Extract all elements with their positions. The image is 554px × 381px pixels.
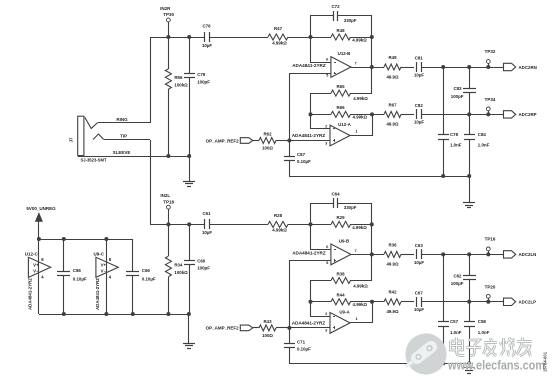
svg-text:C66: C66 — [142, 268, 151, 273]
svg-text:SLEEVE: SLEEVE — [113, 150, 131, 155]
capacitor C62 — [451, 273, 476, 286]
svg-text:R48: R48 — [336, 28, 345, 33]
node — [467, 252, 471, 256]
svg-text:4.99kΩ: 4.99kΩ — [353, 302, 368, 307]
test point TP32 — [485, 49, 496, 67]
svg-text:C72: C72 — [331, 4, 340, 9]
node IN2R — [160, 6, 174, 17]
svg-text:49.9Ω: 49.9Ω — [386, 74, 399, 79]
wire — [401, 254, 414, 256]
capacitor C64 — [331, 191, 356, 210]
svg-text:ADA4841-2YRZ: ADA4841-2YRZ — [292, 250, 326, 255]
wire — [310, 280, 312, 316]
svg-text:TP34: TP34 — [485, 97, 496, 102]
svg-text:100pF: 100pF — [197, 79, 210, 84]
svg-text:15784-001: 15784-001 — [543, 351, 548, 372]
svg-text:100pF: 100pF — [451, 281, 464, 286]
node IN2L — [160, 193, 174, 204]
test point TP20 — [485, 284, 496, 302]
node — [370, 112, 374, 116]
svg-text:C57: C57 — [450, 319, 459, 324]
svg-text:10µF: 10µF — [414, 307, 424, 312]
wire — [289, 140, 291, 156]
port ADC2RN — [504, 63, 537, 70]
wire — [38, 239, 40, 314]
node 5V00_UNREG — [26, 206, 56, 239]
wire — [150, 224, 205, 226]
wire — [443, 139, 445, 176]
svg-text:1.0nF: 1.0nF — [450, 143, 462, 148]
op-amp U12-B — [292, 51, 357, 77]
test point TP16 — [485, 236, 496, 254]
wire — [372, 114, 374, 136]
node — [309, 300, 313, 304]
ground — [183, 156, 195, 187]
capacitor C66 — [126, 268, 156, 282]
wire — [168, 37, 170, 156]
svg-text:TP16: TP16 — [485, 236, 496, 241]
node — [309, 222, 313, 226]
wire — [310, 62, 331, 64]
resistor R44 — [331, 293, 368, 307]
node — [370, 300, 374, 304]
wire — [289, 160, 291, 176]
pin 5 — [326, 73, 329, 78]
wire — [189, 224, 191, 314]
svg-text:49.9Ω: 49.9Ω — [386, 122, 399, 127]
resistor R42 — [384, 290, 401, 314]
capacitor C58 — [464, 319, 490, 335]
wire — [421, 114, 504, 116]
wire — [401, 301, 414, 303]
node — [486, 65, 490, 69]
wire — [350, 135, 372, 137]
svg-text:R65: R65 — [336, 84, 345, 89]
node — [467, 65, 471, 69]
wire — [63, 239, 65, 314]
wire — [469, 326, 471, 363]
wire — [443, 254, 445, 322]
svg-text:R29: R29 — [336, 215, 345, 220]
wire — [443, 326, 445, 363]
capacitor C60 — [184, 259, 210, 271]
node — [467, 300, 471, 304]
wire TIP contact — [93, 134, 127, 140]
svg-text:ADC2RP: ADC2RP — [519, 112, 537, 117]
node — [309, 35, 313, 39]
wire — [39, 314, 189, 316]
node — [441, 252, 445, 256]
svg-text:R34: R34 — [174, 263, 183, 268]
svg-text:C60: C60 — [197, 259, 206, 264]
wire — [288, 224, 310, 226]
node — [131, 312, 135, 316]
wire — [310, 93, 312, 129]
svg-text:1.0nF: 1.0nF — [478, 143, 490, 148]
svg-text:R36: R36 — [388, 242, 397, 247]
resistor R67 — [384, 102, 401, 126]
wire — [276, 327, 289, 329]
wire — [469, 280, 471, 302]
pin 2 — [325, 311, 328, 316]
figure number — [543, 351, 548, 372]
svg-text:1.0nF: 1.0nF — [478, 330, 490, 335]
svg-text:C64: C64 — [331, 191, 340, 196]
resistor R47 — [268, 26, 288, 46]
svg-text:R62: R62 — [263, 132, 272, 137]
svg-text:C67: C67 — [415, 290, 424, 295]
svg-text:ADA4841-2YRZ: ADA4841-2YRZ — [95, 278, 100, 310]
pin 6 — [326, 244, 329, 249]
watermark url — [447, 358, 545, 373]
pin 6 — [326, 57, 329, 62]
resistor R66 — [331, 105, 368, 119]
op-amp U9-B — [292, 238, 357, 264]
wire — [210, 37, 268, 39]
op-amp U12-C — [25, 252, 51, 310]
wire — [253, 327, 259, 329]
wire — [289, 260, 331, 262]
svg-text:U12-B: U12-B — [338, 51, 351, 56]
wire — [253, 140, 259, 142]
wire — [421, 301, 504, 303]
wire SLEEVE — [78, 150, 189, 157]
svg-text:0.10µF: 0.10µF — [142, 276, 156, 281]
resistor R65 — [331, 84, 368, 101]
op-amp U9-C — [94, 252, 119, 310]
wire — [351, 254, 384, 256]
svg-text:330pF: 330pF — [344, 18, 357, 23]
svg-text:4.99kΩ: 4.99kΩ — [353, 283, 368, 288]
svg-text:4.99kΩ: 4.99kΩ — [272, 40, 287, 45]
wire — [310, 128, 330, 130]
wire — [421, 254, 504, 256]
wire — [289, 73, 331, 75]
svg-text:ADA4841-2YRZ: ADA4841-2YRZ — [292, 63, 326, 68]
svg-text:RING: RING — [116, 117, 128, 122]
wire — [289, 140, 330, 142]
capacitor C71 — [284, 340, 311, 352]
wire — [371, 16, 373, 93]
pin 3 — [325, 140, 328, 145]
node — [441, 361, 471, 365]
pin 5 — [326, 260, 329, 265]
wire — [310, 16, 312, 62]
port ADC2LP — [504, 298, 537, 305]
wire — [289, 176, 469, 178]
ground — [463, 176, 475, 208]
ground — [183, 314, 195, 349]
wire — [351, 67, 384, 69]
resistor R28 — [268, 213, 288, 233]
resistor R36 — [384, 242, 401, 266]
svg-text:C76: C76 — [202, 24, 211, 29]
node OP_AMP_REF2 — [206, 325, 253, 331]
node — [441, 65, 445, 69]
svg-text:R38: R38 — [336, 271, 345, 276]
resistor R48 — [331, 28, 367, 43]
node — [486, 252, 490, 256]
svg-text:C79: C79 — [197, 72, 206, 77]
svg-text:R56: R56 — [174, 75, 183, 80]
test point TP18 — [167, 205, 171, 224]
wire — [150, 140, 152, 224]
svg-text:4.99kΩ: 4.99kΩ — [353, 96, 368, 101]
wire — [401, 114, 414, 116]
svg-text:R66: R66 — [336, 105, 345, 110]
svg-text:0.10µF: 0.10µF — [73, 276, 87, 281]
op-amp U9-A — [292, 310, 359, 334]
node OP_AMP_REF2 — [206, 138, 253, 144]
svg-text:TP18: TP18 — [163, 200, 174, 205]
svg-text:C71: C71 — [297, 340, 306, 345]
svg-text:C82: C82 — [415, 103, 424, 108]
svg-text:100kΩ: 100kΩ — [174, 82, 188, 87]
svg-text:J7: J7 — [69, 137, 74, 143]
wire — [310, 280, 372, 282]
svg-text:IN2R: IN2R — [160, 6, 171, 11]
test point TP34 — [485, 97, 496, 114]
node — [62, 237, 66, 316]
svg-text:4.99kΩ: 4.99kΩ — [353, 115, 368, 120]
svg-text:49.9Ω: 49.9Ω — [386, 262, 399, 267]
wire — [168, 224, 170, 314]
capacitor C81 — [414, 56, 424, 78]
svg-text:C86: C86 — [73, 268, 82, 273]
wire — [310, 301, 384, 303]
port ADC2LN — [504, 251, 537, 258]
svg-text:10µF: 10µF — [202, 230, 212, 235]
ground — [463, 363, 475, 374]
svg-text:C87: C87 — [297, 152, 306, 157]
svg-text:10µF: 10µF — [414, 72, 424, 77]
capacitor C57 — [438, 319, 462, 335]
wire — [310, 15, 372, 17]
node — [370, 222, 374, 226]
resistor R34 — [165, 256, 188, 276]
resistor R38 — [331, 271, 368, 288]
svg-text:C62: C62 — [453, 273, 462, 278]
wire RING contact — [85, 117, 128, 129]
svg-text:TP20: TP20 — [485, 284, 496, 289]
resistor R49 — [384, 55, 401, 79]
svg-text:TP32: TP32 — [485, 49, 496, 54]
resistor R43 — [259, 319, 276, 338]
wire — [310, 93, 372, 95]
node — [166, 35, 191, 39]
node — [166, 222, 191, 226]
wire — [469, 139, 471, 176]
resistor R29 — [331, 215, 367, 230]
wire — [151, 37, 205, 39]
svg-text:R43: R43 — [263, 319, 272, 324]
wire — [289, 348, 291, 363]
svg-text:R28: R28 — [274, 213, 283, 218]
wire — [310, 203, 372, 205]
wire — [469, 114, 471, 134]
svg-text:4.99kΩ: 4.99kΩ — [352, 225, 367, 230]
svg-text:330pF: 330pF — [344, 205, 357, 210]
wire — [189, 37, 191, 156]
svg-text:U9-A: U9-A — [339, 310, 350, 315]
svg-text:OP_AMP_REF2: OP_AMP_REF2 — [206, 326, 240, 331]
wire — [104, 139, 150, 141]
node — [309, 112, 313, 116]
svg-text:www.elecfans.com: www.elecfans.com — [447, 358, 545, 373]
wire — [310, 316, 330, 318]
watermark text — [451, 338, 532, 357]
op-amp U12-A — [292, 122, 359, 146]
capacitor C76 — [202, 24, 212, 48]
capacitor C86 — [57, 268, 87, 282]
wire — [289, 363, 469, 365]
wire — [310, 203, 312, 249]
svg-text:R67: R67 — [388, 102, 397, 107]
wire — [310, 37, 372, 39]
svg-text:100kΩ: 100kΩ — [174, 270, 188, 275]
pin 3 — [325, 328, 328, 333]
svg-text:IN2L: IN2L — [160, 193, 170, 198]
svg-text:V+: V+ — [101, 262, 107, 267]
capacitor C61 — [202, 211, 212, 235]
wire — [350, 322, 372, 324]
svg-text:C81: C81 — [415, 56, 424, 61]
wire — [469, 92, 471, 114]
svg-text:4.99kΩ: 4.99kΩ — [352, 38, 367, 43]
wire — [106, 239, 108, 314]
svg-text:SJ-3523-SMT: SJ-3523-SMT — [80, 157, 107, 162]
svg-text:100pF: 100pF — [197, 266, 210, 271]
svg-text:ADC2RN: ADC2RN — [519, 65, 537, 70]
watermark logo — [401, 333, 446, 374]
capacitor C78 — [438, 132, 462, 148]
port ADC2RP — [504, 111, 537, 118]
capacitor C82 — [414, 103, 424, 125]
wire — [289, 328, 291, 344]
wire — [150, 37, 152, 122]
capacitor C84 — [464, 132, 490, 148]
svg-text:1.0nF: 1.0nF — [450, 330, 462, 335]
wire — [371, 203, 373, 280]
svg-text:V−: V− — [101, 269, 107, 274]
wire — [289, 73, 291, 140]
svg-text:U12-C: U12-C — [25, 252, 39, 257]
svg-text:C61: C61 — [202, 211, 211, 216]
svg-text:C63: C63 — [415, 243, 424, 248]
svg-text:R44: R44 — [336, 293, 345, 298]
svg-text:U9-C: U9-C — [94, 252, 105, 257]
wire — [132, 239, 134, 314]
svg-text:OP_AMP_REF2: OP_AMP_REF2 — [206, 138, 240, 143]
svg-text:100Ω: 100Ω — [262, 333, 273, 338]
svg-text:C58: C58 — [478, 319, 487, 324]
svg-text:C83: C83 — [453, 86, 462, 91]
resistor R56 — [165, 69, 188, 89]
capacitor C83 — [451, 86, 476, 99]
wire — [289, 327, 330, 329]
svg-text:4.99kΩ: 4.99kΩ — [272, 228, 287, 233]
resistor R62 — [259, 132, 276, 151]
svg-text:10µF: 10µF — [414, 120, 424, 125]
wire — [289, 260, 291, 328]
capacitor C79 — [184, 72, 210, 84]
svg-text:ADA4841-2YRZ: ADA4841-2YRZ — [292, 133, 326, 138]
wire — [210, 224, 268, 226]
svg-text:TIP: TIP — [120, 134, 127, 139]
wire — [310, 224, 372, 226]
svg-text:R47: R47 — [274, 26, 283, 31]
svg-text:100pF: 100pF — [451, 94, 464, 99]
svg-text:U9-B: U9-B — [339, 238, 349, 243]
svg-text:C84: C84 — [478, 132, 487, 137]
svg-text:10µF: 10µF — [414, 260, 424, 265]
node — [370, 252, 374, 256]
svg-text:49.9Ω: 49.9Ω — [386, 309, 399, 314]
node — [486, 300, 490, 304]
wire — [310, 114, 384, 116]
svg-text:ADC2LN: ADC2LN — [519, 252, 537, 257]
node — [370, 35, 374, 39]
svg-text:C78: C78 — [450, 132, 459, 137]
capacitor C67 — [414, 290, 424, 312]
svg-text:100Ω: 100Ω — [262, 146, 273, 151]
svg-text:10µF: 10µF — [202, 43, 212, 48]
capacitor C72 — [331, 4, 356, 23]
svg-text:R49: R49 — [388, 55, 397, 60]
wire — [469, 67, 471, 88]
node — [166, 154, 191, 158]
svg-text:0.10µF: 0.10µF — [297, 159, 311, 164]
svg-text:5V00_UNREG: 5V00_UNREG — [26, 206, 56, 211]
wire — [39, 239, 133, 241]
wire — [288, 37, 310, 39]
node — [370, 65, 374, 69]
svg-text:ADA4841-2YRZ: ADA4841-2YRZ — [292, 320, 326, 325]
capacitor C87 — [284, 152, 311, 164]
wire — [372, 302, 374, 323]
svg-text:ADC2LP: ADC2LP — [519, 300, 537, 305]
node — [467, 112, 471, 116]
wire — [401, 67, 414, 69]
wire — [443, 67, 445, 134]
svg-text:U12-A: U12-A — [338, 122, 352, 127]
svg-text:ADA4841-2YRZ: ADA4841-2YRZ — [28, 278, 33, 310]
node — [104, 237, 108, 316]
test point TP30 — [167, 18, 171, 37]
wire — [469, 302, 471, 322]
node — [166, 312, 191, 316]
node — [287, 139, 291, 143]
wire — [276, 140, 289, 142]
svg-text:R42: R42 — [388, 290, 397, 295]
wire — [98, 122, 151, 124]
svg-text:TP30: TP30 — [163, 12, 174, 17]
wire — [310, 249, 331, 251]
pin 2 — [325, 123, 328, 128]
svg-text:0.10µF: 0.10µF — [297, 347, 311, 352]
node — [287, 326, 291, 330]
wire — [421, 67, 504, 69]
node — [486, 112, 490, 116]
capacitor C63 — [414, 243, 424, 265]
node — [37, 237, 41, 241]
wire — [469, 254, 471, 275]
connector J7 — [69, 116, 107, 162]
node — [441, 174, 471, 178]
